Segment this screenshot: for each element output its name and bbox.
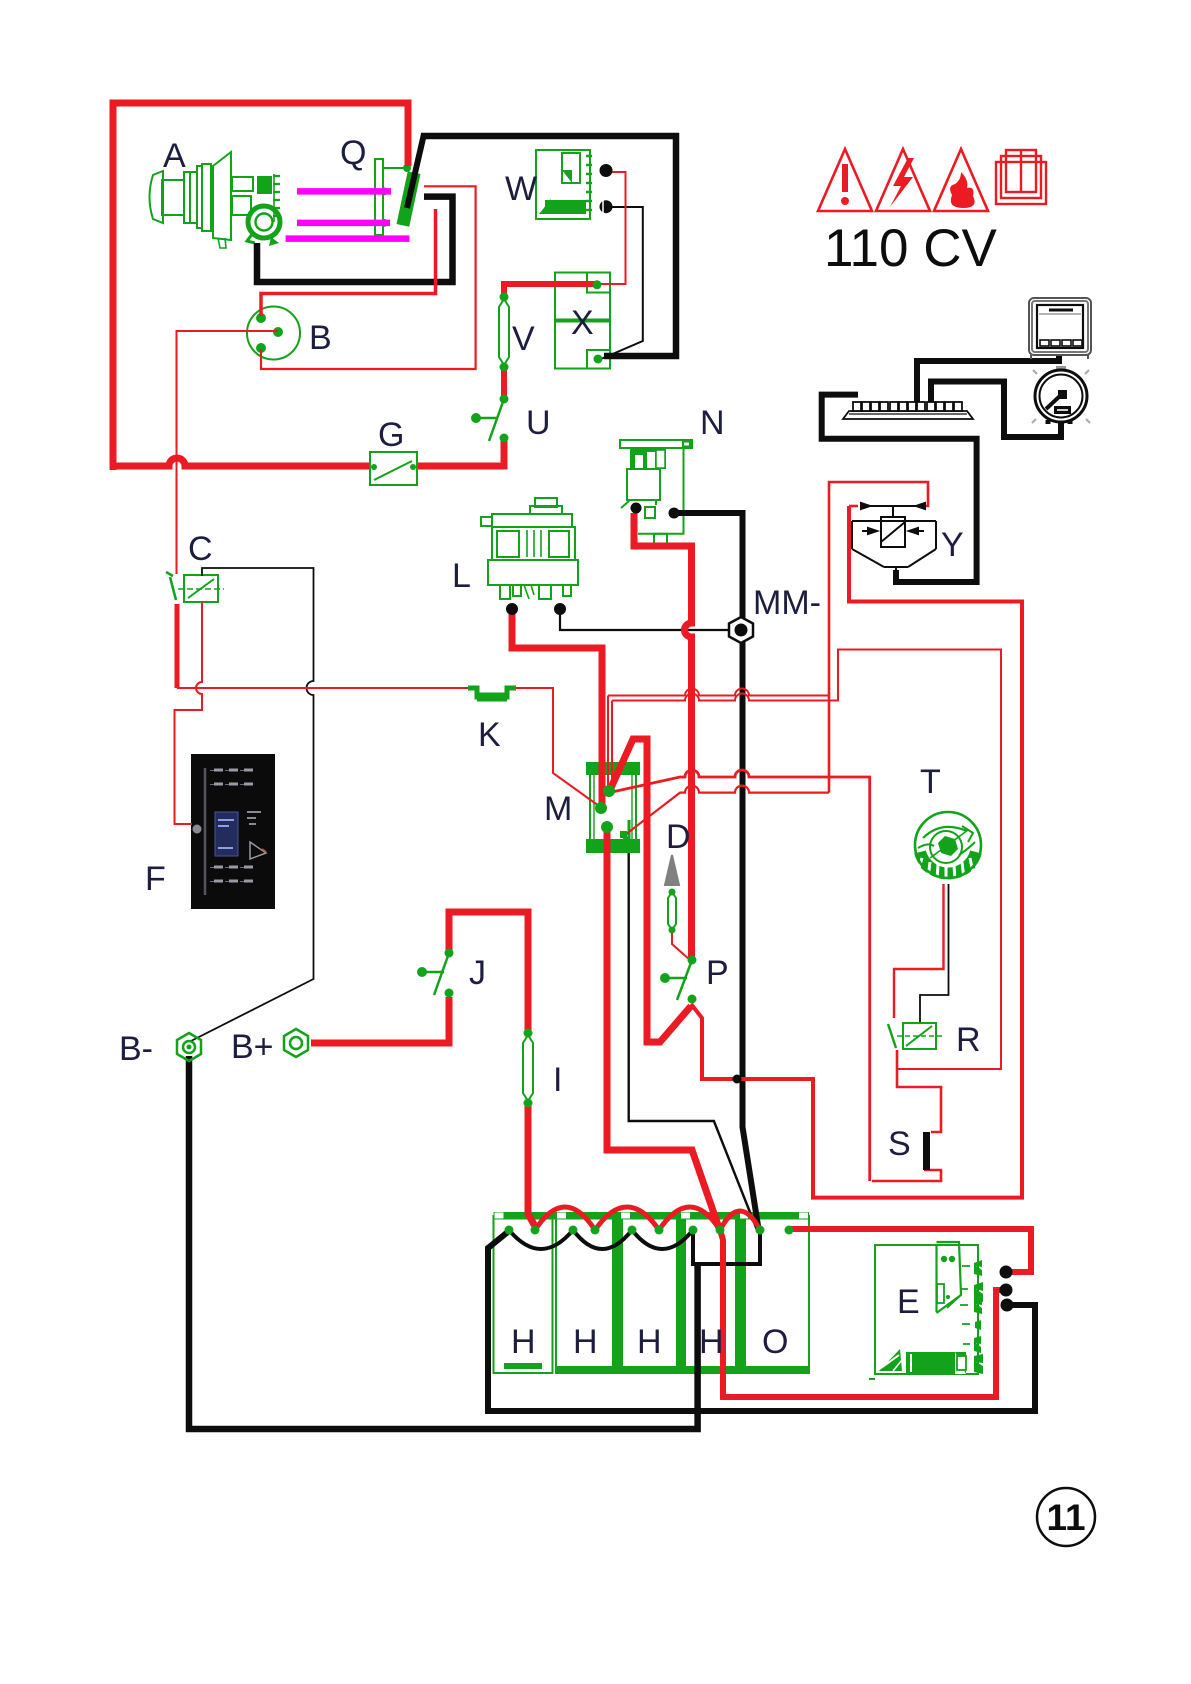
svg-text:11: 11 (1046, 1497, 1085, 1538)
svg-text:110 CV: 110 CV (824, 219, 997, 278)
svg-text:Q: Q (340, 134, 366, 172)
svg-text:U: U (526, 404, 551, 442)
svg-text:E: E (897, 1283, 920, 1321)
svg-text:P: P (706, 954, 729, 992)
svg-text:N: N (700, 404, 725, 442)
svg-text:Y: Y (941, 526, 964, 564)
svg-text:M: M (544, 790, 572, 828)
svg-text:I: I (553, 1061, 562, 1099)
svg-text:H: H (573, 1323, 598, 1361)
svg-text:R: R (956, 1021, 981, 1059)
svg-text:D: D (666, 818, 691, 856)
svg-text:J: J (469, 954, 486, 992)
svg-text:X: X (571, 304, 594, 342)
svg-text:F: F (145, 860, 166, 898)
svg-text:B+: B+ (231, 1028, 274, 1066)
svg-text:W: W (505, 170, 537, 208)
svg-text:G: G (378, 416, 404, 454)
svg-text:K: K (478, 716, 501, 754)
svg-text:MM-: MM- (753, 584, 821, 622)
svg-text:O: O (762, 1323, 788, 1361)
svg-text:T: T (920, 763, 941, 801)
svg-text:S: S (888, 1125, 911, 1163)
svg-text:B-: B- (119, 1030, 153, 1068)
svg-text:A: A (163, 137, 186, 175)
svg-text:C: C (188, 530, 213, 568)
svg-text:L: L (452, 557, 471, 595)
svg-text:V: V (512, 320, 535, 358)
svg-text:H: H (699, 1323, 724, 1361)
svg-text:H: H (511, 1323, 536, 1361)
svg-text:H: H (637, 1323, 662, 1361)
svg-text:B: B (309, 319, 332, 357)
